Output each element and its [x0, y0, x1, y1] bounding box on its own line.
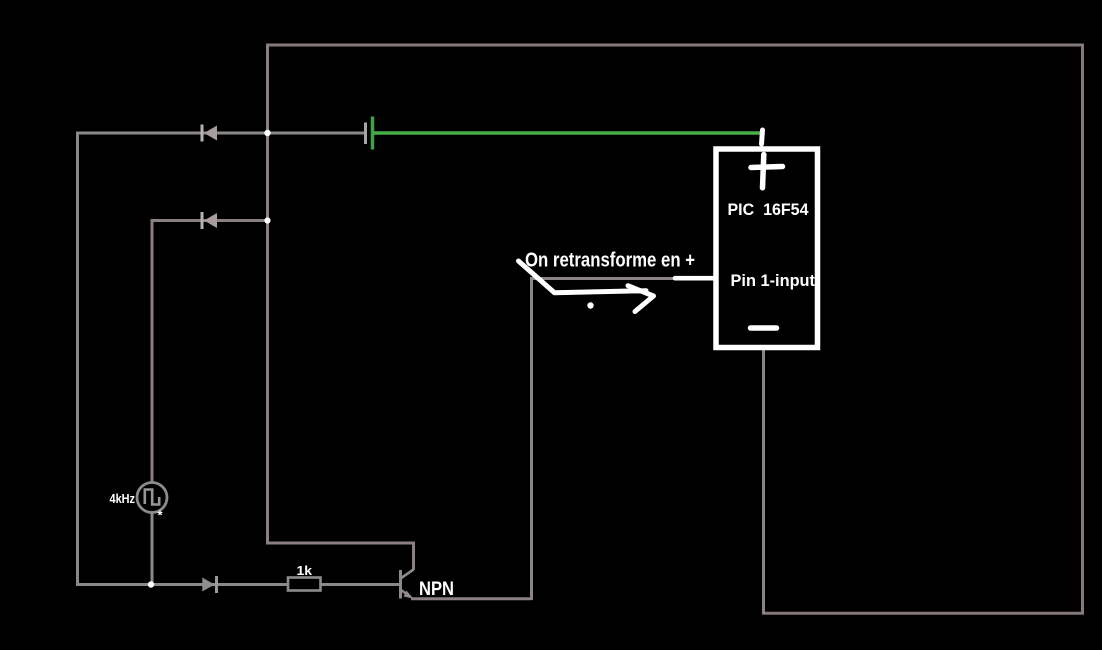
svg-text:4kHz: 4kHz [110, 492, 136, 506]
capacitor C1 right plate (green) [371, 117, 375, 150]
wire pin1 net horizontal (gray part) [532, 277, 675, 280]
diode D3 (bottom, pointing right) [202, 576, 216, 593]
wire top rail [266, 44, 1084, 47]
diode D1 (row 1, pointing left) [202, 125, 217, 142]
wire bottom rail [76, 583, 400, 586]
IC U1 PIC 16F54 box [716, 149, 818, 348]
svg-text:1k: 1k [297, 563, 313, 578]
wire row1 from left rail to capacitor [76, 132, 364, 135]
wire collector run from center column [266, 543, 414, 570]
wire center column from top rail down to collector run [266, 45, 269, 543]
annotation hand-drawn arrow [519, 261, 654, 312]
capacitor C1 left plate (gray) [364, 123, 367, 145]
wire PIC minus lead [762, 350, 765, 615]
diode D2 (row 2, pointing left) [202, 212, 217, 229]
wire left rail [76, 132, 79, 587]
wire row2 [152, 219, 268, 222]
wire emitter column up to pin1 net [530, 277, 533, 600]
wire bottom-right rail [764, 612, 1085, 615]
transistor Q1 NPN [401, 570, 414, 599]
source V1 circle [137, 483, 167, 513]
wire green net from C1 to PIC + pin [374, 131, 761, 135]
source V1 square wave glyph [145, 490, 159, 505]
wire emitter run to the right [411, 597, 532, 600]
junction node bottom rail / source [148, 581, 154, 587]
annotation white overdraw wire into Pin 1 [675, 276, 716, 281]
resistor R1 body [288, 578, 321, 591]
svg-text:Pin 1-input: Pin 1-input [731, 272, 816, 290]
svg-text:PIC 16F54: PIC 16F54 [728, 201, 810, 219]
label minus terminal [751, 325, 777, 331]
label + terminal (hand drawn plus) [751, 155, 783, 188]
svg-text:On retransforme en +: On retransforme en + [525, 250, 695, 272]
junction node row2 / center column [264, 217, 270, 223]
junction node row1 / center column [264, 130, 270, 136]
svg-text:NPN: NPN [419, 579, 454, 600]
wire right rail [1081, 44, 1084, 615]
wire source V1 to bottom rail [151, 513, 154, 587]
annotation dot under arrow [587, 302, 593, 308]
annotation white tick at PIC + terminal [762, 130, 763, 144]
wire row2 corner down to source V1 [151, 219, 154, 483]
